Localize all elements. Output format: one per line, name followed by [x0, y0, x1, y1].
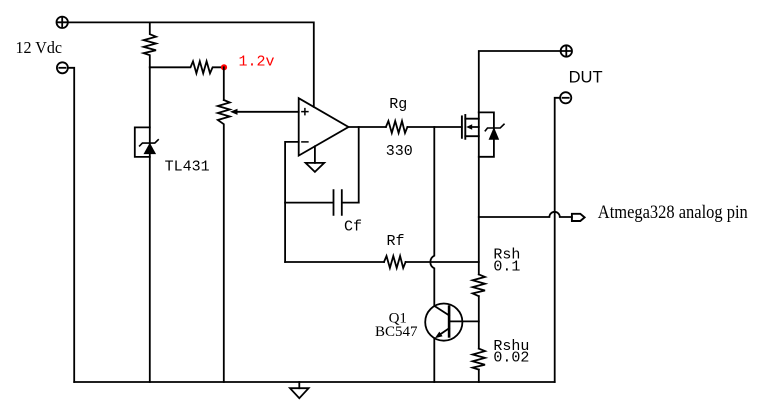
- transistor Q1: [425, 304, 462, 341]
- wire output to Cf: [358, 127, 360, 203]
- wire Q1 emitter to rail: [433, 338, 435, 382]
- op-amp - symbol: [302, 141, 308, 143]
- mosfet body diode: [479, 112, 504, 156]
- wire wiper to op-amp +: [237, 111, 299, 113]
- terminal DUT +: [561, 45, 572, 56]
- resistor R1: [144, 22, 156, 67]
- terminal DUT -: [560, 92, 571, 103]
- wire Rsh to Rshu: [478, 296, 480, 348]
- svg-text:Rf: Rf: [387, 233, 405, 250]
- wire Rg to gate: [407, 126, 461, 128]
- svg-text:1.2v: 1.2v: [239, 54, 275, 71]
- capacitor Cf: [285, 190, 359, 215]
- svg-text:BC547: BC547: [375, 324, 418, 340]
- svg-text:Cf: Cf: [344, 219, 362, 236]
- svg-text:Atmega328 analog pin: Atmega328 analog pin: [598, 202, 748, 223]
- analog pin pad: [572, 214, 585, 221]
- svg-text:12 Vdc: 12 Vdc: [16, 38, 63, 57]
- ground symbol: [298, 382, 300, 388]
- svg-text:Rg: Rg: [389, 96, 407, 113]
- resistor Rg: [386, 121, 408, 133]
- wire Rf to sense node with hop: [406, 261, 479, 263]
- wire op-amp inverting input: [285, 142, 299, 262]
- resistor Rsh: [473, 274, 485, 296]
- wire TL431 branch: [149, 67, 151, 382]
- node 1.2V red dot: [221, 64, 227, 70]
- wire node to potentiometer: [223, 67, 225, 100]
- op-amp U1: [299, 98, 349, 155]
- TL431 zener diode: [140, 140, 159, 154]
- terminal - supply: [57, 62, 68, 73]
- wire op-amp output: [349, 126, 386, 128]
- wire Q1 base: [449, 320, 479, 322]
- svg-text:DUT: DUT: [569, 68, 603, 87]
- svg-text:330: 330: [386, 143, 413, 160]
- wire DUT- down to rail: [555, 98, 561, 382]
- wire gate junction to Q1 collector: [430, 127, 434, 306]
- terminal + supply: [57, 17, 68, 28]
- wire drain to DUT+: [479, 51, 561, 112]
- resistor R2: [150, 61, 221, 73]
- wire inverting node to Rf: [285, 261, 384, 263]
- ground op-amp: [306, 146, 325, 172]
- svg-text:TL431: TL431: [165, 158, 210, 175]
- wire Rshu to rail: [478, 370, 480, 382]
- resistor Rf: [384, 256, 406, 268]
- op-amp + symbol: [302, 109, 308, 115]
- mosfet M1: [462, 115, 479, 139]
- wire minus to ground rail: [68, 68, 74, 382]
- svg-text:0.02: 0.02: [493, 350, 529, 367]
- wire mosfet source chain: [478, 112, 480, 274]
- potentiometer R3: [218, 100, 230, 382]
- wiper arrow: [230, 109, 238, 115]
- TL431 box: [135, 127, 150, 156]
- wire top rail: [68, 22, 314, 107]
- svg-text:0.1: 0.1: [493, 258, 520, 275]
- ground rail: [74, 381, 555, 383]
- wire analog pin with hop: [479, 212, 572, 217]
- resistor Rshu: [473, 349, 485, 370]
